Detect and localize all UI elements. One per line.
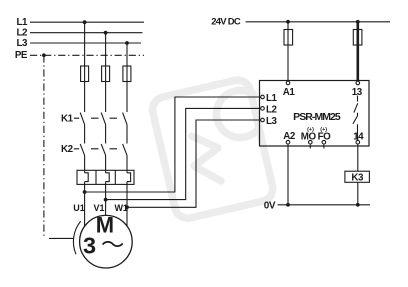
junction L1/pole1	[83, 20, 87, 24]
wire PE horizontal to motor	[49, 237, 74, 239]
fuse F6	[353, 30, 362, 46]
svg-text:W1: W1	[114, 203, 128, 213]
rail L1	[30, 21, 144, 23]
fuse F3	[123, 66, 131, 82]
K1 mechanical link dashes	[74, 117, 117, 119]
terminal L3	[261, 118, 265, 122]
watermark arrow zigzag	[192, 136, 221, 181]
fuse F2	[102, 66, 110, 82]
junction pole3/W1 tap	[125, 205, 129, 209]
svg-text:PSR-MM25: PSR-MM25	[293, 111, 341, 123]
wire A2 to 0V	[287, 144, 289, 205]
contactor K2 pole1 contact	[80, 144, 84, 173]
svg-text:L3: L3	[266, 116, 278, 127]
wire 14 to K3	[357, 144, 359, 171]
svg-text:3: 3	[83, 232, 96, 258]
junction 24V/13	[356, 20, 360, 24]
rail PE (dash-dot)	[30, 54, 144, 56]
0V rail	[278, 204, 370, 206]
svg-text:L2: L2	[266, 104, 278, 115]
svg-text:L3: L3	[16, 38, 28, 49]
junction pole2/V1 tap	[104, 198, 108, 202]
wire A1 branch	[287, 22, 289, 81]
relay PSR-MM25 body	[260, 81, 370, 147]
svg-text:(+): (+)	[307, 127, 314, 133]
terminal FO	[322, 140, 326, 144]
wire pole3 to PSR L3	[127, 120, 261, 207]
watermark logo	[150, 77, 275, 220]
junction PE	[42, 53, 46, 57]
wire pole1 to PSR L1	[85, 97, 261, 192]
terminal circles	[261, 81, 360, 144]
junction 0V/A2	[286, 203, 290, 207]
terminal MO	[309, 140, 313, 144]
contactor K2 pole3 contact	[123, 144, 127, 173]
motor M1 circle	[80, 215, 133, 268]
wire pole3 upper	[126, 43, 128, 112]
fuse F5	[284, 30, 293, 46]
overload element pole2	[106, 173, 110, 216]
svg-text:K2: K2	[61, 144, 74, 155]
watermark circle	[217, 90, 259, 137]
motor tilde	[103, 242, 123, 246]
contactor K1 pole3 contact	[123, 113, 127, 144]
svg-text:24V DC: 24V DC	[211, 17, 241, 28]
svg-text:(+): (+)	[320, 127, 327, 133]
terminal 13	[356, 81, 360, 85]
svg-text:A1: A1	[283, 87, 296, 98]
watermark rounded square	[150, 77, 275, 220]
wire pole1 upper	[84, 22, 86, 112]
svg-text:L1: L1	[16, 17, 28, 28]
svg-text:U1: U1	[73, 203, 85, 213]
overload element pole1	[85, 173, 89, 226]
stub MO	[309, 145, 311, 149]
svg-text:A2: A2	[283, 131, 296, 142]
terminal A2	[286, 140, 290, 144]
terminal L2	[261, 107, 265, 111]
svg-text:PE: PE	[15, 50, 28, 61]
fuse F1	[81, 66, 89, 82]
junction L2/pole2	[104, 31, 108, 35]
terminal A1	[286, 81, 290, 85]
motor PE arc	[73, 221, 80, 254]
rail L2	[30, 32, 143, 34]
wire pole2 upper	[105, 33, 107, 112]
relay coil K3	[345, 171, 370, 182]
wire PE vertical drop	[43, 55, 45, 237]
svg-text:0V: 0V	[264, 201, 276, 212]
junction 0V/K3	[356, 203, 360, 207]
svg-text:K1: K1	[61, 113, 74, 124]
K2 mechanical link dashes	[74, 148, 117, 150]
wire pole2 to PSR L2	[106, 108, 261, 199]
terminal 14	[356, 140, 360, 144]
wire 13 branch (thick)	[356, 22, 359, 81]
junction pole1/U1 tap	[83, 190, 87, 194]
rail L3	[30, 42, 141, 44]
wire K3 to 0V	[357, 182, 359, 205]
svg-text:14: 14	[353, 131, 364, 142]
junction 24V/A1	[286, 20, 290, 24]
stub FO	[323, 145, 325, 149]
24V DC rail	[246, 21, 390, 23]
contactor K1 pole1 contact	[80, 113, 84, 144]
svg-text:M: M	[96, 213, 114, 238]
contactor K2 pole2 contact	[101, 144, 105, 173]
svg-text:L1: L1	[266, 93, 278, 104]
PSR internal contact 13-14	[353, 96, 358, 141]
overload relay F4 body	[77, 170, 134, 184]
overload element pole3	[127, 173, 131, 226]
svg-text:K3: K3	[351, 172, 364, 183]
svg-text:L2: L2	[16, 28, 28, 39]
terminal L1	[261, 95, 265, 99]
contactor K1 pole2 contact	[101, 113, 105, 144]
svg-text:13: 13	[352, 87, 363, 98]
junction L3/pole3	[125, 41, 129, 45]
